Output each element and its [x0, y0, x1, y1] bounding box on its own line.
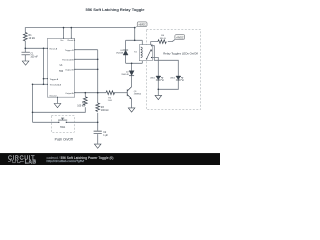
relay contact arm: [147, 49, 152, 59]
junction bus output row: [97, 92, 99, 94]
wire Q1 emitter to ground: [131, 99, 133, 108]
wire R5 to Q1 base: [114, 92, 128, 94]
LED1: [156, 76, 161, 80]
junction trigger A link: [43, 78, 45, 80]
wire D1 top leg: [125, 40, 127, 50]
svg-text:1 µF: 1 µF: [103, 134, 108, 137]
svg-text:100 kΩ: 100 kΩ: [77, 104, 85, 107]
IC pin labels: [49, 39, 76, 98]
wire R3 bottom leg: [97, 113, 99, 123]
svg-text:Output A: Output A: [65, 92, 74, 95]
svg-text:Relay Toggles LEDs On/Off: Relay Toggles LEDs On/Off: [163, 52, 198, 56]
wire +9V top rail: [25, 28, 134, 33]
junction Vcc stub on rail: [63, 27, 65, 29]
junction rail to +9V drop: [134, 27, 136, 29]
svg-text:+9VDC: +9VDC: [138, 25, 146, 27]
transistor Q1: [127, 87, 131, 99]
resistor R4: [158, 40, 166, 44]
svg-text:http://circuitlab.com/c/7g8vf: http://circuitlab.com/c/7g8vf: [47, 159, 85, 163]
diode D1 flyback: [123, 50, 128, 55]
wire C1 to ground: [24, 55, 26, 61]
capacitor C2: [94, 131, 102, 134]
IC pin ticks: [47, 38, 75, 98]
svg-text:556 Soft Latching Relay Toggle: 556 Soft Latching Relay Toggle: [85, 7, 145, 12]
wire relay NO to LED1: [152, 58, 158, 77]
svg-text:330 Ω: 330 Ω: [160, 38, 166, 40]
junction bus threshold B: [97, 59, 99, 61]
wire Threshold B row: [75, 58, 98, 60]
svg-text:Ground: Ground: [49, 96, 57, 98]
svg-text:100 nF: 100 nF: [30, 55, 38, 58]
logo waveform: [8, 160, 24, 163]
wire R2 top leg: [84, 93, 86, 97]
wire relay coil top pin: [141, 40, 143, 44]
annotation box SW1: [51, 116, 74, 133]
wire R1 to node: [24, 41, 26, 52]
diode D2: [129, 71, 134, 76]
wire Output A row: [75, 92, 106, 94]
svg-text:1N4148: 1N4148: [121, 74, 129, 76]
wire +9V label drop: [134, 28, 136, 41]
junction left vertical R2 row: [32, 112, 34, 114]
svg-text:Trigger A: Trigger A: [50, 78, 59, 81]
ground under LEDs: [155, 95, 162, 99]
wire LED bottoms join: [158, 80, 178, 90]
wire Output B row: [75, 68, 98, 70]
svg-text:1N4148: 1N4148: [116, 53, 124, 55]
ground under C2: [94, 144, 101, 148]
svg-text:Reset A: Reset A: [50, 48, 58, 51]
resistor R2: [83, 97, 87, 106]
svg-text:Reset B: Reset B: [68, 39, 76, 42]
junction bus output B: [97, 69, 99, 71]
wire switch row: [33, 121, 98, 123]
svg-text:Threshold B: Threshold B: [62, 60, 74, 62]
resistor R1: [23, 33, 27, 42]
ground at Q1 emitter: [128, 108, 135, 112]
junction LED ground node: [158, 89, 160, 91]
resistor R5: [106, 91, 115, 95]
capacitor C1: [22, 52, 30, 55]
svg-text:100 kΩ: 100 kΩ: [101, 109, 109, 112]
junction threshold A link: [43, 84, 45, 86]
junction switch row R3 C2: [97, 122, 99, 124]
wire relay common to R4: [151, 42, 158, 45]
svg-text:2N3904: 2N3904: [134, 94, 142, 96]
relay K1: [139, 45, 152, 61]
wire relay coil bottom pin: [141, 61, 143, 64]
LED2: [176, 76, 181, 80]
svg-text:LED2: LED2: [170, 78, 176, 80]
resistor R3: [96, 103, 100, 112]
wire D1 bottom leg: [125, 55, 127, 64]
svg-text:Push On/Off: Push On/Off: [55, 137, 73, 141]
svg-text:SW1: SW1: [60, 126, 66, 129]
wire R2 bottom row: [33, 107, 86, 112]
wire relay top rail: [126, 39, 143, 41]
switch SW1 pushbutton: [58, 122, 59, 123]
wire node to Reset A: [25, 47, 47, 49]
wire relay bottom rail: [126, 62, 143, 64]
wire D2 link: [131, 63, 133, 86]
wire left vertical: [32, 84, 34, 122]
wire Threshold A row: [33, 83, 48, 85]
svg-text:LED1: LED1: [150, 78, 156, 80]
wire reset-trigger link: [43, 48, 45, 84]
wire LED ground stem: [157, 89, 159, 95]
wire relay NC to LED2: [152, 46, 178, 76]
wire Trigger B to bus: [75, 49, 98, 51]
junction R2 top on output row: [85, 92, 87, 94]
junction relay bottom rail to D2: [131, 63, 133, 65]
wire IC ground stem: [57, 97, 59, 103]
ground under C1: [22, 61, 29, 65]
annotation box relay and LEDs: [146, 30, 200, 110]
svg-text:LAB: LAB: [25, 160, 37, 165]
junction left vertical threshold: [32, 84, 34, 86]
wire C2 stem: [97, 122, 99, 144]
svg-text:Trigger B: Trigger B: [65, 50, 74, 52]
junction reset link top: [43, 48, 45, 50]
junction Reset B stub on rail: [71, 27, 73, 29]
wire Trigger A row: [44, 78, 48, 80]
wire Vcc stub: [63, 28, 65, 39]
svg-text:+9VDC: +9VDC: [176, 37, 184, 39]
junction R1-C1-reset node: [25, 48, 27, 50]
wire R3 top leg: [97, 93, 99, 103]
op-amp U1 556 dual timer IC box: [48, 38, 75, 97]
node label +9VDC top: [135, 26, 138, 27]
svg-text:Output B: Output B: [65, 69, 74, 72]
svg-text:Threshold A: Threshold A: [50, 84, 62, 87]
svg-text:10 kΩ: 10 kΩ: [29, 37, 36, 40]
node label +9VDC right: [175, 35, 185, 40]
junction relay top rail: [134, 40, 136, 42]
wire R4 to +9VDC label: [168, 39, 175, 41]
svg-text:1 kΩ: 1 kΩ: [108, 100, 113, 102]
ground under IC: [54, 104, 61, 108]
wire Reset B stub: [70, 28, 72, 39]
caption bar: [0, 153, 220, 165]
relay coil: [141, 47, 143, 57]
wire bus vertical: [97, 50, 99, 93]
